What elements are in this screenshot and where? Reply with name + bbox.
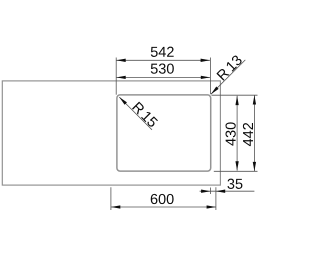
arrow 600 left <box>111 205 120 208</box>
dimension line 600 <box>111 206 216 208</box>
arrow R15 leader pointing to corner <box>119 97 127 105</box>
extension line bottom right (430/442) <box>214 170 258 172</box>
label 600 <box>151 194 174 204</box>
label 442 (rotated 90ccw) <box>243 123 253 146</box>
label R 13 (rotated 45ccw) <box>216 54 242 80</box>
dimension line 530 <box>116 76 210 78</box>
arrow 430 top <box>235 96 238 105</box>
arrow 542 right <box>201 59 210 62</box>
arrow 442 top <box>253 95 256 104</box>
arrow 430 bottom <box>235 161 238 170</box>
label 430 (rotated 90ccw) <box>225 122 235 145</box>
extension line right of 600/35 <box>215 187 217 210</box>
arrow 35 left pointing right <box>201 190 210 193</box>
extension line left of 600 <box>110 187 112 210</box>
sink outer outline (worktop edge) <box>2 81 220 185</box>
arrow 35 right pointing left <box>216 190 225 193</box>
label 530 <box>151 63 174 73</box>
dimension line 35 <box>200 190 255 192</box>
dimension line 542 <box>116 59 209 61</box>
leader line R13 <box>211 60 245 94</box>
extension line left of 35 <box>209 188 211 195</box>
arrow 600 right <box>207 205 216 208</box>
label 35 <box>227 179 242 189</box>
label 542 <box>151 47 174 57</box>
dimension line 430 <box>236 96 238 171</box>
dimension line 442 <box>253 95 255 171</box>
extension line left of 542/530 <box>115 58 117 95</box>
arrow R13 leader pointing to corner <box>211 87 219 95</box>
leader line R15 <box>119 97 152 130</box>
bowl (rounded square) <box>117 95 211 171</box>
arrow 542 left <box>116 59 125 62</box>
arrow 530 right <box>201 76 210 79</box>
extension line right of 542/530 <box>209 58 211 95</box>
extension line top right (430/442) <box>212 94 258 96</box>
arrow 442 bottom <box>253 162 256 171</box>
label R 15 (rotated 45cw) <box>132 102 158 128</box>
arrow 530 left <box>116 76 125 79</box>
